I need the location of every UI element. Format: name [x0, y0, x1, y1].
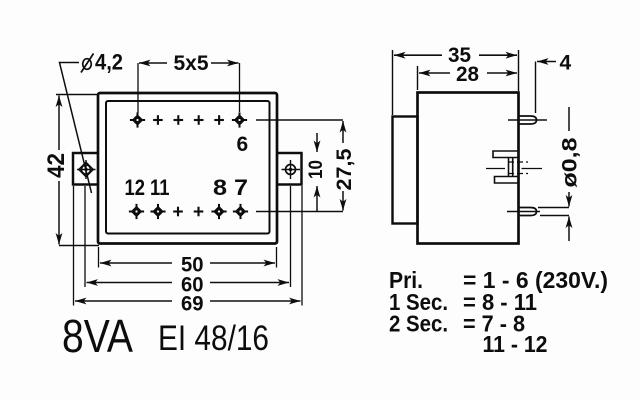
right tab mounting hole	[282, 160, 301, 179]
top pin row: pin 6	[232, 112, 247, 127]
dimension 35: dimension line with arrows	[394, 54, 442, 56]
dimension o0,8: leader tail above text	[568, 107, 570, 131]
dimension 28: dimension line with arrows	[419, 72, 450, 74]
dimension 50: dimension line with arrows	[100, 262, 172, 264]
left view: right mounting tab	[277, 153, 302, 185]
dimension 5x5: extension drop lines	[137, 63, 139, 113]
svg-text:5x5: 5x5	[174, 52, 209, 75]
svg-text:8VA: 8VA	[62, 310, 133, 362]
bottom pin centre line	[507, 211, 540, 213]
dimension 69: dimension line with arrows	[75, 300, 172, 302]
dimension 28: extension line	[417, 66, 419, 90]
dimension 35: extension lines	[392, 50, 394, 115]
left view: left mounting tab	[73, 153, 98, 185]
bottom pin row: pin 8	[211, 204, 226, 219]
bottom pin tangent extension lines	[538, 207, 569, 209]
dimension 27,5: dimension line with arrows	[342, 121, 344, 143]
extension line from pin 6 to 27,5 dimension	[256, 119, 343, 121]
svg-text:4: 4	[560, 52, 572, 75]
svg-text:10: 10	[306, 160, 327, 179]
dimension 69: extension lines (tab outer edges)	[73, 186, 75, 306]
bottom pin row: pin 7	[233, 204, 248, 219]
extension line from pin 7 to 27,5 dimension	[256, 211, 343, 213]
svg-text:ø0,8: ø0,8	[559, 137, 582, 187]
svg-text:28: 28	[456, 63, 479, 86]
svg-text:69: 69	[181, 293, 204, 316]
left view: cover inner outline	[106, 101, 270, 234]
right view: bottom solder pin	[519, 208, 537, 216]
top pin centre line	[508, 119, 547, 121]
dimension 10: upper arrow	[316, 133, 318, 152]
dimension 42: bottom extension line	[59, 245, 99, 247]
svg-text:27,5: 27,5	[333, 148, 356, 190]
left view: transformer body outer outline	[98, 93, 277, 244]
dimension 10: lower arrow	[316, 186, 318, 212]
right view: centre terminal clip detail	[493, 151, 518, 183]
dimension 42: dimension line with arrows	[58, 96, 60, 151]
dimension 4: leader with arrow and pin-end line	[537, 61, 556, 63]
bottom pin row: unused positions (+)	[173, 207, 183, 217]
svg-text:42: 42	[43, 153, 70, 178]
svg-text:12 11: 12 11	[125, 175, 170, 200]
svg-text:11 - 12: 11 - 12	[483, 331, 548, 357]
dimension 50: extension lines	[98, 247, 100, 268]
svg-text:4,2: 4,2	[95, 50, 123, 75]
svg-text:2 Sec.: 2 Sec.	[389, 311, 448, 337]
centre clip hidden/centre lines	[508, 161, 528, 163]
right view: top solder pin	[519, 116, 537, 124]
bottom pin row: pin 12	[129, 204, 144, 219]
dimension o4,2: leader line	[60, 63, 92, 194]
dimension 42: top extension line (body top edge extended)	[56, 94, 97, 96]
top pin row: pin 1	[130, 112, 145, 127]
svg-text:6: 6	[237, 133, 249, 156]
bottom pin row: pin 11	[150, 204, 165, 219]
dimension 5x5: dimension line with arrows	[139, 62, 167, 64]
text: diameter 4,2 label	[81, 50, 123, 75]
dimension 60: extension lines (hole centres)	[84, 186, 86, 287]
dimension o0,8: arrows at pin	[568, 192, 570, 207]
svg-text:8 7: 8 7	[213, 175, 248, 200]
top pin row: unused positions (+)	[153, 115, 163, 125]
svg-text:EI 48/16: EI 48/16	[158, 319, 269, 358]
right view: mounting flange	[393, 117, 418, 224]
dimension 60: dimension line with arrows	[87, 282, 173, 284]
right view: body outline	[418, 93, 519, 244]
left tab mounting hole	[77, 160, 96, 179]
